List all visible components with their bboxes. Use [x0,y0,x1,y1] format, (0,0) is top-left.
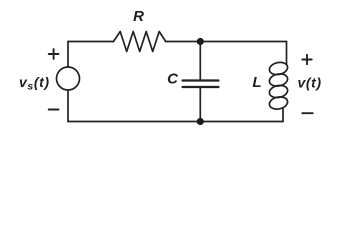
svg-text:L: L [252,74,261,91]
wire top-right segment [166,41,287,43]
wire inductor top lead [286,42,288,65]
capacitor C plates [183,79,219,81]
svg-text:R: R [133,8,144,25]
wire inductor bottom lead [282,109,284,122]
wire capacitor bottom lead [199,88,201,122]
inductor L coil [268,61,288,111]
resistor R [114,32,166,52]
voltage source vs(t) [57,67,80,90]
source polarity plus [49,49,59,59]
wire left branch lower [67,90,69,122]
wire bottom [68,121,283,123]
wire capacitor top lead [199,42,201,80]
svg-text:v(t): v(t) [298,75,322,91]
svg-text:vs(t): vs(t) [19,74,50,93]
output polarity plus [302,55,311,64]
node top junction [197,38,204,45]
svg-text:C: C [167,71,179,88]
wire top-left segment [68,41,114,43]
wire left branch upper [67,42,69,68]
output polarity minus [302,112,312,114]
node bottom junction [197,118,204,125]
source polarity minus [49,109,59,111]
